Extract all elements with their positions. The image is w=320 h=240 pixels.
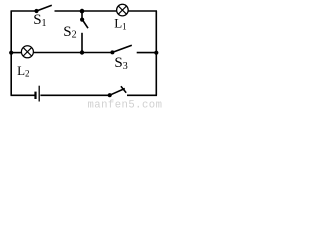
svg-text:S2: S2 <box>63 24 76 41</box>
svg-text:L2: L2 <box>17 63 29 79</box>
svg-text:manfen5.com: manfen5.com <box>88 100 163 109</box>
svg-text:L1: L1 <box>114 16 126 32</box>
svg-text:S1: S1 <box>33 12 46 29</box>
svg-text:S3: S3 <box>114 55 127 72</box>
